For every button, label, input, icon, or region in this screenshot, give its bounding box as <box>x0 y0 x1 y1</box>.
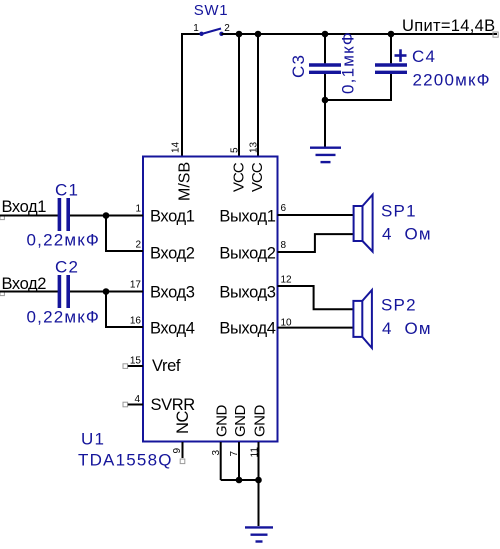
wire: IC pin 4 stub <box>128 404 143 406</box>
ground symbol (upper) <box>310 148 341 162</box>
wire: IC pin 8 to SP1 <box>278 234 354 252</box>
wire: IC pin 3 down <box>220 442 222 480</box>
wire: IC pin 7 down <box>238 442 240 480</box>
power rail wire <box>222 33 498 35</box>
svg-text:0,22мкФ: 0,22мкФ <box>27 308 101 327</box>
svg-text:C1: C1 <box>55 181 79 200</box>
svg-text:U1: U1 <box>81 430 105 449</box>
svg-text:11: 11 <box>250 447 261 458</box>
svg-text:1: 1 <box>193 23 199 34</box>
wire: rail to C4 <box>390 34 392 63</box>
wire: node to IC pin 2 <box>106 216 143 252</box>
junction: input2 node <box>103 288 110 295</box>
svg-text:Vref: Vref <box>152 357 181 375</box>
svg-text:TDA1558Q: TDA1558Q <box>78 451 173 470</box>
switch SW1 blade <box>202 29 222 35</box>
svg-text:NC: NC <box>174 410 192 434</box>
wire: C3 to ground node <box>324 74 326 100</box>
svg-text:Выход2: Выход2 <box>219 245 275 263</box>
svg-text:Вход1: Вход1 <box>150 208 195 226</box>
wire: Вход1 to C1 <box>0 215 58 217</box>
capacitor C2 <box>59 275 68 308</box>
svg-text:SW1: SW1 <box>194 2 229 19</box>
wire: node to upper ground <box>324 100 326 147</box>
wire: IC pin 6 to SP1 <box>278 214 354 216</box>
svg-text:Вход1: Вход1 <box>2 198 47 216</box>
svg-text:2: 2 <box>224 23 230 34</box>
IC U1 pin 9 terminal square <box>180 459 185 464</box>
svg-text:1: 1 <box>135 203 141 214</box>
svg-text:Вход3: Вход3 <box>150 284 195 302</box>
IC U1 pin 4 terminal square <box>123 402 128 407</box>
svg-text:10: 10 <box>281 317 293 328</box>
svg-text:M/SB: M/SB <box>177 162 194 201</box>
wire: IC pin 11 down <box>258 442 260 480</box>
wire: rail to C3 <box>324 34 326 63</box>
svg-text:13: 13 <box>249 141 260 153</box>
wire: Вход2 to C2 <box>0 291 58 293</box>
svg-text:GND: GND <box>214 405 231 438</box>
speaker SP2 <box>353 290 372 348</box>
svg-text:4 Ом: 4 Ом <box>382 319 432 338</box>
svg-text:12: 12 <box>281 274 293 285</box>
svg-text:GND: GND <box>252 405 269 438</box>
svg-text:Вход2: Вход2 <box>150 245 195 263</box>
svg-text:VCC: VCC <box>249 162 266 192</box>
svg-text:3: 3 <box>211 450 222 456</box>
junction: input1 node <box>103 212 110 219</box>
port Вход2 terminal <box>0 291 4 295</box>
svg-text:14: 14 <box>171 141 182 153</box>
svg-text:17: 17 <box>130 279 142 290</box>
junction: rail / C3 <box>322 31 329 38</box>
wire: node to IC pin 16 <box>106 292 143 328</box>
wire: bus to lower ground <box>258 480 260 526</box>
capacitor C1 <box>59 198 68 231</box>
svg-text:6: 6 <box>281 203 287 214</box>
svg-text:2: 2 <box>135 240 141 251</box>
switch SW1 contact 2 <box>219 32 223 36</box>
svg-text:Выход3: Выход3 <box>219 284 275 302</box>
svg-text:5: 5 <box>230 147 241 153</box>
junction: rail / pin13 <box>255 31 262 38</box>
ground symbol (lower) <box>245 527 273 541</box>
svg-text:C4: C4 <box>412 47 436 66</box>
wire: IC pin 10 to SP2 <box>278 327 354 329</box>
wire: ground bus <box>221 479 259 481</box>
wire: rail to IC pin 5 <box>238 34 240 157</box>
wire: IC pin 15 stub <box>128 365 143 367</box>
capacitor C3 <box>309 65 341 72</box>
svg-text:Выход1: Выход1 <box>219 208 275 226</box>
port Вход1 terminal <box>0 215 4 219</box>
svg-text:Вход2: Вход2 <box>2 275 47 293</box>
svg-text:9: 9 <box>172 448 183 454</box>
svg-text:VCC: VCC <box>231 162 248 192</box>
wire: switch branch down to IC pin 14 <box>181 33 183 157</box>
svg-text:4 Ом: 4 Ом <box>382 225 432 244</box>
junction: pin7 / bus <box>236 477 243 484</box>
junction: C3/C4 ground node <box>322 97 329 104</box>
svg-text:0,22мкФ: 0,22мкФ <box>27 231 101 250</box>
svg-text:SP1: SP1 <box>381 202 417 221</box>
svg-text:2200мкФ: 2200мкФ <box>413 71 491 90</box>
svg-text:SP2: SP2 <box>381 296 417 315</box>
power rail end terminal <box>493 32 498 37</box>
svg-text:15: 15 <box>130 355 142 366</box>
wire: C4 down and to ground node <box>325 74 391 100</box>
svg-text:C2: C2 <box>55 258 79 277</box>
svg-text:Вход4: Вход4 <box>150 320 195 338</box>
svg-text:8: 8 <box>281 240 287 251</box>
IC U1 pin 15 terminal square <box>123 364 128 369</box>
svg-text:4: 4 <box>134 394 140 405</box>
wire: C2 to IC pin 17 <box>70 291 143 293</box>
svg-text:Uпит=14,4В: Uпит=14,4В <box>402 17 495 35</box>
capacitor C4 <box>375 65 407 72</box>
junction: pin11 / bus <box>255 477 262 484</box>
wire: IC pin 9 stub <box>182 442 184 458</box>
svg-text:7: 7 <box>229 451 240 457</box>
speaker SP1 <box>354 195 373 252</box>
capacitor C4 plus sign <box>395 49 407 62</box>
svg-text:16: 16 <box>130 316 142 327</box>
switch SW1 contact 1 <box>199 32 203 36</box>
svg-text:GND: GND <box>232 405 249 438</box>
svg-text:C3: C3 <box>289 54 308 78</box>
svg-text:0,1мкФ: 0,1мкФ <box>339 31 358 94</box>
wire: rail to IC pin 13 <box>257 34 259 157</box>
junction: rail / C4 <box>388 31 395 38</box>
wire: rail corner to switch pin 1 <box>182 33 200 35</box>
junction: rail / pin5 <box>236 31 243 38</box>
wire: C1 to IC pin 1 <box>70 215 143 217</box>
svg-text:Выход4: Выход4 <box>219 320 275 338</box>
IC U1 body <box>143 157 278 442</box>
wire: IC pin 12 to SP2 <box>278 286 354 309</box>
